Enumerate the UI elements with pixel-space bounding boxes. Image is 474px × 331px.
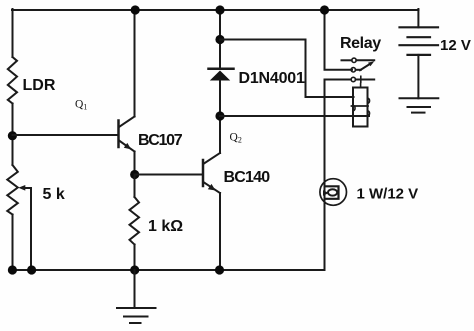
relay contact row 1 (NC) (342, 58, 375, 62)
wire Q1 emitter down (134, 152, 136, 175)
wire bottom ground rail (12, 269, 325, 271)
wire diode anode to Q2 collector (219, 81, 221, 154)
resistor LDR (8, 57, 17, 104)
node diode anode / Q2 collector junction (215, 111, 224, 120)
wire left column top segment (12, 9, 14, 57)
relay contact row 3 (NO) (325, 77, 375, 81)
node junction LDR/pot/base (8, 131, 17, 140)
svg-text:12 V: 12 V (440, 37, 471, 54)
wire left column middle segment (12, 104, 14, 166)
lamp 1W/12V (320, 179, 347, 206)
node wiper bottom junction (27, 265, 36, 274)
node Q2 emitter bottom junction (215, 265, 224, 274)
wire cathode node to relay coil (top feed) (220, 40, 354, 98)
relay armature linkage ticks (360, 76, 362, 87)
relay common contact terminal (351, 68, 361, 72)
wire Q1 collector to top rail (134, 10, 136, 117)
ground symbol (117, 270, 156, 323)
node diode column on top rail (215, 5, 224, 14)
svg-text:Relay: Relay (340, 35, 381, 52)
wire Q1 base (13, 134, 118, 136)
relay switch arm (360, 61, 374, 70)
wire top supply rail (12, 9, 418, 11)
wire Q2 emitter to bottom rail (219, 193, 221, 270)
diode D1N4001 (209, 69, 234, 81)
battery 12V (400, 27, 439, 55)
battery ground symbol (400, 98, 439, 112)
svg-text:Q1: Q1 (75, 99, 87, 112)
potentiometer 5k (7, 165, 17, 215)
svg-text:5 k: 5 k (43, 186, 65, 203)
wire NO contact down to lamp (324, 80, 326, 271)
node diode cathode junction (215, 35, 224, 44)
wire node to Q2 base (135, 174, 203, 176)
resistor 1k (130, 197, 140, 245)
node relay drop on top rail (320, 5, 329, 14)
relay coil box (352, 88, 370, 127)
wire diode column from top rail (219, 10, 221, 67)
wire top rail to relay common contact (325, 10, 353, 70)
wire left column bottom segment (12, 215, 14, 271)
node Q1 collector on top rail (131, 5, 140, 14)
svg-text:Q2: Q2 (230, 132, 242, 145)
wire Q2 collector node to relay coil (bottom feed) (220, 115, 369, 117)
wire wiper to bottom rail (30, 188, 32, 270)
svg-text:BC107: BC107 (138, 132, 183, 149)
wire top rail to battery (417, 9, 419, 27)
node Q1 emitter / Q2 base / 1k junction (130, 170, 139, 179)
svg-text:LDR: LDR (23, 77, 56, 94)
svg-text:1 W/12 V: 1 W/12 V (357, 186, 419, 203)
svg-text:1 kΩ: 1 kΩ (148, 218, 183, 235)
svg-text:BC140: BC140 (224, 169, 271, 186)
node 1k bottom junction (130, 265, 139, 274)
wire node to 1k resistor (134, 175, 136, 198)
wire battery negative to ground (417, 55, 419, 98)
transistor Q1 BC107 (119, 117, 135, 152)
transistor Q2 BC140 (203, 153, 220, 193)
wire 1k to bottom rail (134, 245, 136, 271)
potentiometer 5k wiper arrow (18, 185, 31, 191)
node bottom-left junction (8, 265, 17, 274)
svg-text:D1N4001: D1N4001 (239, 70, 306, 87)
